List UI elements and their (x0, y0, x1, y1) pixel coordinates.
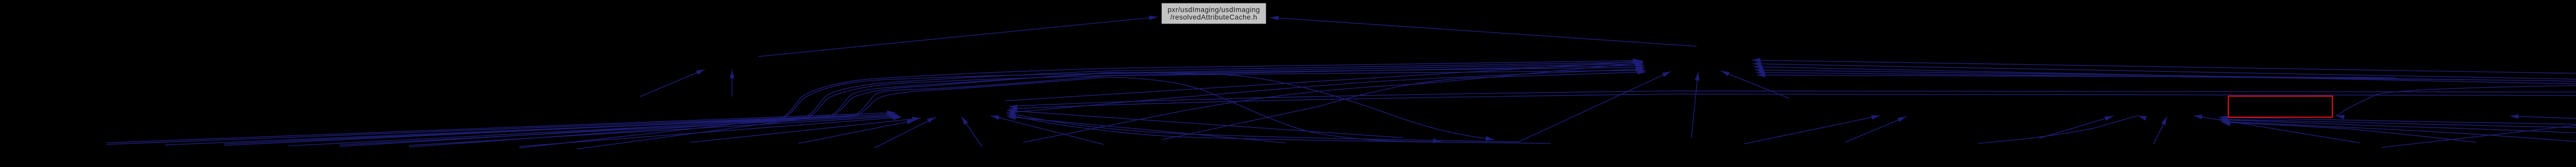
edge into node C2 bottom (1845, 117, 1906, 142)
band-A edge from right into A2 right #1 (1752, 58, 2576, 82)
edge into node L1 bottom (steep) (2154, 117, 2167, 144)
shallow edge under bundle into center left low #2 (799, 120, 916, 143)
edge far right under red box into L1 right #1 (2218, 116, 2576, 143)
edge bottom-left into right node tail (2381, 91, 2576, 147)
edge far right under red box into L1 right #2 (2219, 118, 2576, 143)
band-A edge from right into A2 right #4 (1755, 68, 2576, 82)
rising edge into A2 left low (1162, 70, 1646, 140)
edge into A1 vertical (730, 70, 735, 97)
edge into node L1 bottom-right (2194, 115, 2360, 143)
top node pxr/usdImaging/usdImaging/resolvedAttributeCache.h (1161, 3, 1266, 25)
svg-text:/resolvedAttributeCache.h: /resolvedAttributeCache.h (1171, 13, 1258, 21)
edge into center right #1 (1007, 109, 1403, 138)
red highlighted node box (2228, 96, 2332, 117)
edge into node C2 left (1744, 115, 1880, 144)
edge A1 to top node (arrow into top-left) (758, 15, 1158, 57)
edge bottom-left into center node left #3 (340, 113, 899, 145)
long edge FR to center node #1 (1009, 89, 2576, 109)
band-A edge from right into A2 right #3 (1754, 65, 2576, 90)
band-A edge from right into A2 right #5 (1756, 70, 2509, 80)
flat curve edge to A2 left #5 (519, 65, 1645, 148)
edge into node L1 bottom-left (1978, 116, 2147, 143)
edge right under red box into L1 right #5 (2222, 122, 2476, 142)
S-curve edge bottom-left to A2 left #2 (224, 60, 1642, 145)
edge into center node bottom-right corner (991, 116, 1104, 144)
shallow edge under bundle into center left low #1 (690, 117, 921, 142)
rising edge center to A2 left low #2 (1006, 67, 1644, 113)
arch edge over center to bottom-right node #1 (165, 72, 1494, 145)
edge bottom-left into center node left #4 (409, 115, 900, 146)
flat curve edge to A2 left #6 (577, 68, 1646, 149)
edge into center node bottom #2 (steep up-left) (961, 117, 982, 146)
edge into node L1 left (2039, 116, 2113, 138)
S-curve edge bottom-left to A2 left #1 (107, 59, 1641, 144)
S-curve edge bottom-left to A2 left #4 (409, 63, 1645, 147)
long edge FR to center node #2 (1009, 92, 2576, 112)
svg-text:pxr/usdImaging/usdImaging: pxr/usdImaging/usdImaging (1167, 6, 1260, 14)
edge bottom-left into center node left #2 (224, 112, 897, 144)
edge right under red box into L1 right #4 (2221, 120, 2576, 143)
edge into center node bottom #1 (steep up-right) (874, 117, 936, 148)
edge into A2 bottom right (1721, 71, 1789, 98)
curved edge into red box right edge (2336, 84, 2576, 119)
edge into center right #4 (1007, 115, 1285, 143)
edge into center right #2 curved (1007, 112, 1520, 142)
edge center node to A2 left (rising) (1005, 60, 1643, 101)
edge from right into node NR1 (left arrow) (2510, 114, 2576, 130)
edge bottom-left into center node left #1 (107, 110, 895, 143)
rising edge into A2 left #3 (1023, 61, 1643, 142)
band-A edge from right into A2 right #6 (1757, 73, 2396, 78)
edge into A2 bottom left (1520, 71, 1671, 141)
edge bottom-left into center node left #5 (519, 116, 902, 146)
edge into A1 diagonal (640, 69, 705, 97)
edge into center right #3 curved (1007, 115, 1551, 143)
edge right under red box into L1 right #3 (2221, 119, 2576, 142)
arch edge over center to bottom-right node #2 (289, 77, 1442, 146)
S-curve edge bottom-left to A2 left #3 (340, 62, 1643, 146)
edge into A2 bottom mid (steep) (1691, 72, 1700, 138)
band-A edge from right into A2 right #2 (1753, 62, 2576, 87)
edge A2 to top node (arrow into top-right) (1270, 16, 1697, 46)
